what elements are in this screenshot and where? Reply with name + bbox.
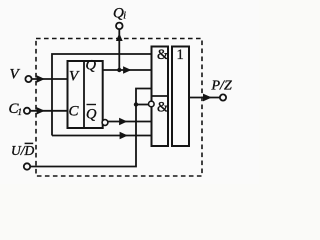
svg-text:i: i [123,11,126,22]
node U/D to inverted input [134,102,138,106]
flip-flop Qbar output bubble [102,120,108,126]
svg-text:P/Z: P/Z [211,79,232,94]
inverting bubble on lower AND input [149,101,155,107]
svg-text:U/D: U/D [11,143,35,158]
svg-text:1: 1 [177,47,184,63]
node Q branch [117,68,121,72]
OR gate box [172,47,189,147]
AND gate column box [152,47,169,147]
wire C1 riser [52,54,152,136]
wire V input [32,78,68,80]
AND column divider [152,95,169,97]
svg-text:&: & [157,47,169,63]
wire Q output to AND [103,69,152,71]
wire Qbar output to lower AND [108,121,152,123]
wire P/Z output [189,97,220,99]
svg-text:Q: Q [86,107,97,123]
flip-flop internal divider [83,61,85,128]
wire C1 bottom branch to lower AND [52,135,152,137]
svg-text:1: 1 [18,107,23,117]
wire C1 input [30,110,67,112]
wire Q1 riser [118,29,120,70]
svg-text:&: & [157,100,169,116]
flip-flop U1 box [68,61,103,128]
dashed enclosure box [36,39,202,177]
wire U/D run and riser [30,89,151,167]
svg-text:C: C [69,104,80,120]
paper background [0,0,259,184]
svg-text:Q: Q [86,58,97,74]
output terminal Q1 [116,23,123,30]
output terminal P/Z [220,94,226,100]
